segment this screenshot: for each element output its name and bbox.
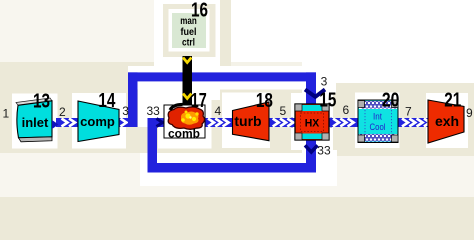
svg-text:5: 5 <box>280 104 287 118</box>
beige row band left <box>0 62 231 153</box>
fuel chevron bottom <box>183 94 191 99</box>
white tile inlet <box>12 94 58 149</box>
white strip top pipe <box>128 66 336 90</box>
fuel control tile U16 <box>163 4 216 57</box>
svg-text:16: 16 <box>191 0 208 22</box>
svg-text:33: 33 <box>147 104 161 118</box>
wire return vertical up to node 33 <box>148 118 158 173</box>
white tile exhaust <box>426 93 468 148</box>
svg-text:15: 15 <box>319 90 336 112</box>
svg-text:18: 18 <box>256 90 273 112</box>
svg-text:1: 1 <box>3 107 10 121</box>
svg-text:13: 13 <box>33 91 50 113</box>
svg-text:Cool: Cool <box>370 122 386 132</box>
svg-text:14: 14 <box>98 90 116 112</box>
white tile comb <box>158 95 212 149</box>
wire navy chevron below HX <box>305 145 318 152</box>
svg-text:turb: turb <box>234 113 261 129</box>
white tile turb <box>222 93 270 149</box>
svg-text:ctrl: ctrl <box>182 38 195 49</box>
svg-text:33: 33 <box>317 144 331 158</box>
beige row band middle <box>231 62 336 66</box>
exhaust U21 <box>428 100 464 143</box>
svg-text:21: 21 <box>444 90 461 112</box>
wire navy chevron into comb <box>157 119 163 127</box>
turbine U18 <box>233 102 270 141</box>
inlet U13 <box>16 98 59 142</box>
wire bottom horizontal <box>148 163 317 173</box>
svg-text:comp: comp <box>80 114 115 129</box>
white cell HX bottom connector <box>302 150 337 186</box>
svg-text:9: 9 <box>466 106 473 120</box>
white upper-right canvas area east of HX column <box>336 0 474 83</box>
wire chevrons node6 <box>333 119 354 127</box>
svg-text:fuel: fuel <box>181 27 197 38</box>
wire pipe inlet-comp <box>56 118 78 127</box>
white cell HX top connector <box>302 58 336 93</box>
wire HX bottom vertical down <box>306 140 316 173</box>
wire chevrons node4 <box>208 119 229 127</box>
fuel chevron top <box>183 58 191 63</box>
beige row band right <box>336 83 474 156</box>
wire chevron after comp <box>121 119 127 127</box>
svg-text:comb: comb <box>168 127 200 141</box>
white tile intercooler <box>355 93 400 149</box>
svg-text:HX: HX <box>305 118 320 130</box>
svg-text:17: 17 <box>191 90 207 112</box>
wire right vertical into HX top <box>306 72 316 104</box>
white strip bottom pipe <box>140 153 337 186</box>
heat exchanger U15 <box>295 104 329 140</box>
svg-text:3: 3 <box>122 104 129 118</box>
intercooler U20 <box>358 100 398 143</box>
wire navy chevron into HX left <box>291 119 297 127</box>
wire pipe turb-HX <box>269 118 295 127</box>
svg-text:3: 3 <box>321 74 328 88</box>
wire pipe comp-elbow <box>118 118 137 127</box>
svg-text:exh: exh <box>435 113 459 129</box>
beige column right of fuel panel <box>219 0 231 153</box>
svg-text:6: 6 <box>343 103 350 117</box>
white panel fuel column <box>154 0 220 100</box>
wire top horizontal <box>128 72 316 81</box>
wire chevrons node2 <box>62 119 76 127</box>
wire pipe comb-turb <box>205 118 233 127</box>
svg-text:inlet: inlet <box>22 115 49 130</box>
white tile comp <box>72 93 126 149</box>
svg-text:20: 20 <box>382 90 400 112</box>
svg-text:Int: Int <box>373 112 382 122</box>
fuel line <box>183 56 193 105</box>
svg-text:4: 4 <box>215 104 222 118</box>
wire recuperator cold leg up vertical <box>128 72 138 127</box>
white upper-right canvas area <box>231 0 474 62</box>
compressor U14 <box>78 101 119 142</box>
white tile HX <box>291 93 333 150</box>
combustor U17 <box>164 105 205 141</box>
white cell gap node3-33 <box>138 66 158 127</box>
svg-text:7: 7 <box>405 105 412 119</box>
wire pipe into comb <box>148 118 165 127</box>
wire chevrons node5 <box>273 119 294 127</box>
wire navy chevron out of HX right <box>330 119 336 127</box>
svg-text:2: 2 <box>59 105 66 119</box>
wire navy chevron above HX <box>305 90 325 97</box>
wire pipe intercooler-exh <box>398 118 428 127</box>
wire pipe HX-intercooler <box>329 118 358 127</box>
wire chevrons node7 <box>402 119 430 127</box>
